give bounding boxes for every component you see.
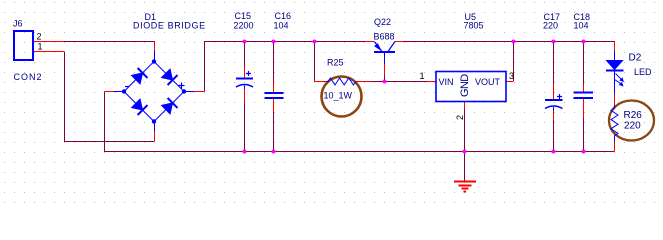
svg-text:7805: 7805 — [464, 21, 484, 31]
J6 pin 2 stub — [34, 41, 64, 43]
junction C17 top — [552, 40, 556, 44]
C18 bottom stub — [583, 99, 585, 118]
bridge top pin stub — [154, 42, 156, 52]
connector J6 body — [14, 31, 33, 60]
junction R25 riser — [313, 40, 317, 44]
diode D1a left-to-top — [132, 68, 148, 84]
C17 bottom stub — [553, 111, 555, 120]
junction C15 bottom — [243, 150, 247, 154]
C16 bottom stub — [273, 99, 275, 112]
svg-text:220: 220 — [624, 121, 641, 132]
svg-text:C15: C15 — [235, 11, 252, 21]
junction C16 top — [272, 40, 276, 44]
junction C15 top — [243, 40, 247, 44]
Q22 emitter stub — [365, 41, 374, 43]
J6 pin 1 stub — [34, 51, 64, 53]
svg-text:104: 104 — [274, 21, 289, 31]
base bar — [374, 51, 395, 53]
junction Q22 base / R25 / U5 — [383, 80, 387, 84]
wire C15 upper — [244, 42, 246, 67]
wire R25 riser from rail — [314, 42, 316, 82]
junction C17 bottom — [552, 150, 556, 154]
svg-text:2: 2 — [37, 32, 42, 42]
resistor R26 zigzag — [611, 105, 618, 142]
Q22 collector stub — [395, 41, 404, 43]
svg-text:DIODE BRIDGE: DIODE BRIDGE — [133, 21, 206, 31]
LED D2 — [606, 51, 624, 94]
wire R25 right to U5 VIN — [371, 81, 429, 83]
svg-text:R25: R25 — [327, 58, 344, 68]
svg-text:VOUT: VOUT — [475, 77, 501, 87]
junction U5 gnd bus — [463, 150, 467, 154]
R25 right stub — [357, 81, 371, 83]
diode D1d bottom-to-right — [162, 98, 178, 114]
base pin — [384, 53, 386, 64]
svg-text:GND: GND — [459, 74, 471, 97]
svg-text:VIN: VIN — [439, 77, 454, 87]
wire C16 lower — [273, 112, 275, 151]
wire C16 upper — [273, 42, 275, 81]
bridge minus sign — [125, 86, 130, 88]
svg-text:10_1W: 10_1W — [324, 91, 353, 101]
junction dots magenta — [243, 40, 586, 154]
svg-text:3: 3 — [509, 71, 514, 81]
LED pin bottom — [614, 71, 616, 94]
bridge right pin stub — [194, 91, 205, 93]
svg-text:1: 1 — [420, 71, 425, 81]
junction VOUT riser — [512, 40, 516, 44]
junction C18 bottom — [582, 150, 586, 154]
bridge edge left-top — [124, 62, 154, 92]
LED cathode bar — [606, 70, 624, 72]
svg-text:1: 1 — [38, 42, 43, 52]
wire VOUT riser — [513, 42, 515, 81]
bridge left pin stub — [105, 91, 115, 93]
U5 pin3 stub — [506, 81, 514, 83]
diode bridge D1 — [114, 51, 194, 131]
resistor R25 zigzag — [326, 78, 357, 85]
wire C18 upper — [583, 42, 585, 84]
capacitor C18 — [574, 93, 594, 99]
transistor Q22 — [374, 42, 395, 65]
resistor R25 circle — [322, 77, 362, 117]
svg-text:CON2: CON2 — [14, 72, 43, 82]
svg-text:C16: C16 — [275, 11, 292, 21]
wire net: all maroon wires — [64, 42, 615, 182]
C16 top stub — [273, 81, 275, 93]
svg-text:Q22: Q22 — [374, 17, 391, 27]
svg-text:D2: D2 — [629, 53, 642, 64]
C15 bottom stub — [244, 89, 246, 103]
wire U5 gnd pin down to bus and ground — [464, 109, 466, 181]
R26 bottom stub — [614, 142, 616, 152]
LED pin top — [614, 51, 616, 61]
bridge pin left — [114, 91, 124, 93]
capacitor C17 (polarized) — [545, 94, 563, 111]
bridge edge left-bottom — [124, 92, 154, 122]
LED arrow 2 — [615, 80, 621, 84]
resistor R26 circle — [609, 101, 654, 141]
svg-text:104: 104 — [574, 21, 589, 31]
svg-text:2200: 2200 — [234, 21, 254, 31]
capacitor C15 (polarized) — [236, 71, 253, 89]
collector line — [388, 42, 395, 52]
bridge pin bottom — [154, 122, 156, 132]
bridge edge top-right — [154, 62, 184, 92]
R25 left stub — [315, 81, 327, 83]
wire pin1 down and right to bridge bottom — [65, 52, 155, 142]
U5 pin1 stub — [428, 81, 436, 83]
capacitor C16 — [265, 93, 284, 98]
bridge bottom pin stub — [154, 131, 156, 142]
wire bridge plus up to top rail, rail to emitter — [205, 42, 366, 92]
bridge edge bottom-right — [154, 92, 184, 122]
wire C18 lower — [583, 118, 585, 151]
LED arrow 1 — [616, 74, 621, 79]
bridge pin top — [154, 51, 156, 62]
svg-text:2: 2 — [455, 115, 465, 120]
svg-text:220: 220 — [543, 21, 558, 31]
wire bridge minus to ground bus — [105, 92, 615, 152]
junction C16 bottom — [272, 150, 276, 154]
LED arrowheads — [619, 77, 624, 82]
wire Q22 base lower segment — [384, 76, 386, 82]
bridge plus sign — [179, 83, 185, 89]
U5 pin2 stub — [464, 102, 466, 110]
wire pin2 to bridge top — [64, 42, 155, 52]
svg-text:J6: J6 — [13, 19, 23, 29]
junction C18 top — [582, 40, 586, 44]
svg-text:R26: R26 — [624, 110, 643, 121]
D2 to R26 stub — [614, 94, 616, 105]
diode D1c top-to-right — [162, 69, 178, 85]
wire C15 lower — [244, 103, 246, 151]
C15 top stub — [244, 67, 246, 78]
C17 top stub — [553, 84, 555, 100]
D2 top stub — [614, 42, 616, 52]
svg-text:B688: B688 — [374, 32, 395, 42]
bridge pin right — [184, 91, 194, 93]
red pin stubs — [34, 42, 615, 152]
regulator U5 box — [436, 72, 506, 102]
wire collector to rail right end — [404, 41, 616, 43]
wire C17 upper — [553, 42, 555, 84]
emitter line — [374, 42, 382, 52]
ground symbol — [454, 182, 476, 192]
C18 top stub — [583, 84, 585, 92]
LED triangle — [607, 61, 623, 70]
Q22 base stub — [384, 64, 386, 76]
bridge vertex dots — [122, 59, 186, 123]
diode D1b left-to-bottom — [132, 99, 148, 115]
wire C17 lower — [553, 120, 555, 151]
svg-text:LED: LED — [634, 67, 652, 77]
emitter arrow — [375, 44, 381, 50]
